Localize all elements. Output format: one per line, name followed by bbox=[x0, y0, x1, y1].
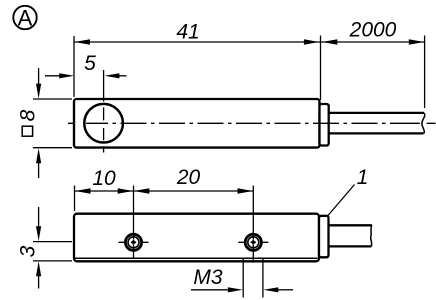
svg-text:2000: 2000 bbox=[349, 19, 397, 42]
dimension 5 left arrow (outside) bbox=[45, 75, 62, 77]
svg-text:M3: M3 bbox=[193, 266, 222, 289]
cable top view bbox=[329, 112, 424, 114]
svg-text:3: 3 bbox=[16, 245, 39, 257]
svg-text:10: 10 bbox=[92, 167, 116, 190]
extension line x=74.5 for 10 dim bbox=[74, 186, 76, 212]
cable gland step bottom view bbox=[319, 216, 329, 257]
dimension 3 bottom arrow bbox=[38, 276, 40, 289]
dimension M3 right arrow bbox=[277, 289, 293, 291]
mounting hole 1 outer bbox=[125, 234, 141, 250]
mounting hole 2 inner bbox=[248, 237, 259, 248]
arrowhead 10 right bbox=[118, 188, 133, 193]
cable break line top view bbox=[422, 113, 425, 133]
extension line y=147.7 for square8 bbox=[33, 147, 72, 149]
dimension line 2000 bbox=[321, 41, 425, 43]
cable gland step top view bbox=[320, 104, 329, 146]
svg-text:A: A bbox=[18, 5, 33, 30]
mounting hole 1 inner bbox=[128, 237, 139, 248]
extension line y=260.9 for 3 dim bbox=[33, 260, 72, 262]
hole 1 vertical centerline / extension bbox=[133, 186, 135, 259]
hole 2 vertical centerline / extension bbox=[252, 186, 254, 263]
arrowhead 20 left bbox=[134, 188, 149, 193]
cable break line bottom view bbox=[371, 225, 372, 246]
vertical centerline of circle bbox=[103, 70, 105, 153]
svg-text:8: 8 bbox=[17, 109, 40, 121]
hole 1 horizontal centerline bbox=[119, 241, 149, 243]
extension line M3 right bbox=[262, 259, 264, 298]
dimension square8 bottom arrow bbox=[38, 163, 40, 178]
svg-text:1: 1 bbox=[357, 166, 369, 189]
dimension line 41 bbox=[74, 41, 321, 43]
extension line left (x=74) for 41 dim bbox=[73, 36, 75, 97]
sensor body top view bbox=[74, 99, 320, 148]
arrowhead 41 right bbox=[304, 39, 319, 44]
dimension 5 right arrow (outside) bbox=[117, 75, 127, 77]
sensing face circle bbox=[84, 104, 123, 143]
square symbol of square8 bbox=[22, 126, 32, 136]
extension line y=99 for square8 bbox=[33, 98, 72, 100]
hole 2 horizontal centerline bbox=[238, 241, 268, 243]
arrowhead 2000 left bbox=[322, 39, 337, 44]
extension line y=241.6 for 3 dim bbox=[33, 241, 72, 243]
hole 2 center dot bbox=[252, 241, 255, 244]
arrowhead 10 left bbox=[75, 188, 90, 193]
extension line x=320.5 between 41 and 2000 bbox=[320, 36, 322, 101]
mounting hole 2 outer bbox=[245, 234, 261, 250]
dimension M3 left arrow bbox=[191, 289, 229, 291]
horizontal centerline top view bbox=[68, 122, 436, 124]
dimension square8 top arrow bbox=[38, 68, 40, 84]
arrowhead 41 left bbox=[75, 39, 90, 44]
sensor body bottom view bbox=[74, 214, 319, 262]
svg-text:20: 20 bbox=[176, 166, 201, 189]
leader line for item 1 bbox=[328, 185, 355, 216]
dimension line 10 and 20 bbox=[75, 190, 254, 192]
view label A circle bbox=[13, 6, 36, 29]
arrowhead 20 right bbox=[238, 188, 253, 193]
hole 1 center dot bbox=[132, 241, 135, 244]
extension line M3 left bbox=[242, 259, 244, 298]
cable bottom view bbox=[329, 224, 373, 226]
extension line x=424.6 right end of 2000 bbox=[424, 36, 426, 109]
svg-text:41: 41 bbox=[176, 21, 199, 44]
dimension 3 top arrow bbox=[38, 207, 40, 227]
arrowhead 2000 right bbox=[409, 39, 424, 44]
svg-text:5: 5 bbox=[84, 52, 96, 75]
chamfer edge line along bottom of body bbox=[75, 257, 318, 259]
